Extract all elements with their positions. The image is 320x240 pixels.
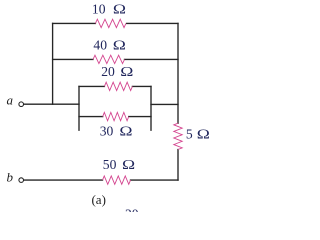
svg-text:Ω: Ω: [119, 124, 132, 139]
svg-text:b: b: [6, 170, 13, 185]
svg-text:5: 5: [186, 127, 193, 142]
svg-text:Ω: Ω: [113, 38, 126, 53]
svg-text:a: a: [6, 93, 13, 108]
svg-text:Ω: Ω: [113, 2, 126, 17]
svg-text:30: 30: [100, 123, 114, 138]
svg-text:20: 20: [101, 64, 115, 79]
svg-text:20: 20: [125, 207, 139, 212]
svg-text:10: 10: [92, 2, 106, 17]
svg-text:50: 50: [103, 157, 117, 172]
svg-text:(a): (a): [91, 192, 105, 207]
svg-text:40: 40: [93, 38, 107, 53]
svg-text:Ω: Ω: [122, 158, 135, 173]
svg-text:Ω: Ω: [120, 65, 133, 80]
svg-text:Ω: Ω: [197, 127, 210, 142]
